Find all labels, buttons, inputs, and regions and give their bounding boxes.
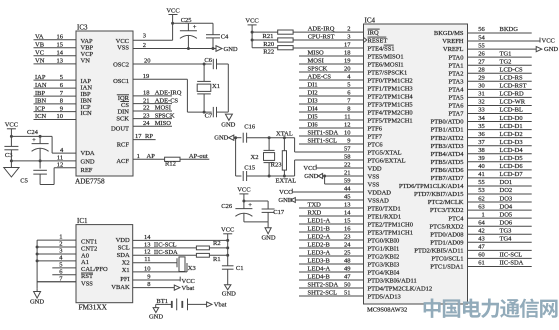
svg-text:OSC1: OSC1 bbox=[113, 78, 129, 85]
svg-text:PTC4: PTC4 bbox=[448, 215, 464, 222]
svg-text:VDD: VDD bbox=[116, 237, 130, 244]
svg-text:ICP: ICP bbox=[35, 105, 46, 112]
svg-text:C17: C17 bbox=[273, 209, 285, 216]
svg-text:LED1-B: LED1-B bbox=[308, 225, 331, 232]
svg-text:LCD-D5: LCD-D5 bbox=[500, 155, 523, 162]
svg-text:LED4-A: LED4-A bbox=[308, 265, 331, 272]
svg-text:3: 3 bbox=[347, 33, 350, 40]
svg-text:9: 9 bbox=[347, 137, 350, 144]
svg-text:19: 19 bbox=[344, 57, 351, 64]
svg-text:CAL/PFO: CAL/PFO bbox=[81, 266, 108, 273]
svg-text:PTD2/KBI5/AD11: PTD2/KBI5/AD11 bbox=[414, 247, 463, 254]
svg-text:63: 63 bbox=[478, 203, 485, 210]
svg-text:GND: GND bbox=[222, 291, 236, 298]
svg-text:X3: X3 bbox=[188, 265, 196, 272]
svg-text:MISO: MISO bbox=[308, 49, 325, 56]
svg-text:X2: X2 bbox=[122, 259, 130, 266]
svg-text:64: 64 bbox=[478, 219, 485, 226]
svg-text:RCF: RCF bbox=[117, 142, 130, 149]
svg-text:PTB4/ATD4: PTB4/ATD4 bbox=[431, 151, 465, 158]
svg-text:REF: REF bbox=[81, 167, 93, 174]
svg-text:60: 60 bbox=[478, 252, 485, 259]
svg-text:DI4: DI4 bbox=[308, 105, 319, 112]
svg-text:R12: R12 bbox=[165, 161, 176, 168]
svg-text:SCL: SCL bbox=[118, 244, 130, 251]
svg-text:13: 13 bbox=[144, 241, 151, 248]
svg-text:20: 20 bbox=[344, 65, 351, 72]
svg-text:PTF2/TPM1CH4: PTF2/TPM1CH4 bbox=[368, 93, 414, 100]
svg-text:58: 58 bbox=[344, 153, 351, 160]
svg-text:LCD-D4: LCD-D4 bbox=[500, 147, 524, 154]
svg-text:VSS: VSS bbox=[117, 45, 129, 52]
svg-text:MOSI: MOSI bbox=[308, 57, 324, 64]
svg-text:SHT1-SDA: SHT1-SDA bbox=[308, 129, 339, 136]
svg-text:ADE-CS: ADE-CS bbox=[308, 73, 332, 80]
svg-text:LCD-D6: LCD-D6 bbox=[500, 163, 524, 170]
svg-text:TG1: TG1 bbox=[500, 50, 512, 57]
svg-text:30: 30 bbox=[478, 83, 485, 90]
svg-text:VREFL: VREFL bbox=[443, 46, 464, 53]
svg-text:VDDAD: VDDAD bbox=[368, 189, 392, 196]
svg-text:PTE1/RXD1: PTE1/RXD1 bbox=[368, 213, 402, 220]
svg-text:DO1: DO1 bbox=[500, 179, 513, 186]
svg-text:MISO: MISO bbox=[155, 120, 172, 127]
svg-text:VSS: VSS bbox=[81, 281, 93, 288]
svg-text:PTE2/TPM1CH0: PTE2/TPM1CH0 bbox=[368, 221, 414, 228]
svg-text:59: 59 bbox=[344, 177, 351, 184]
svg-text:41: 41 bbox=[478, 171, 485, 178]
svg-text:R21: R21 bbox=[263, 33, 274, 40]
svg-text:19: 19 bbox=[143, 73, 150, 80]
svg-text:IIC-SDA: IIC-SDA bbox=[500, 260, 524, 267]
svg-text:+: + bbox=[32, 137, 36, 144]
svg-text:VN: VN bbox=[35, 58, 45, 65]
svg-text:RESET: RESET bbox=[368, 37, 388, 44]
svg-text:22: 22 bbox=[344, 161, 351, 168]
svg-text:PTE4/SS1: PTE4/SS1 bbox=[368, 45, 395, 52]
svg-text:ACF: ACF bbox=[116, 158, 129, 165]
svg-text:LCD-BL: LCD-BL bbox=[500, 107, 524, 114]
svg-text:PTB7/ATD7: PTB7/ATD7 bbox=[431, 175, 465, 182]
svg-text:GND: GND bbox=[304, 173, 318, 180]
svg-text:SHT1-SCL: SHT1-SCL bbox=[308, 137, 338, 144]
svg-text:51: 51 bbox=[344, 289, 351, 296]
svg-text:PTC3/TXD2: PTC3/TXD2 bbox=[430, 207, 464, 214]
svg-text:5: 5 bbox=[347, 81, 350, 88]
svg-text:16: 16 bbox=[57, 33, 64, 40]
svg-text:VCC: VCC bbox=[279, 189, 292, 196]
svg-text:PTD4/TPM2CLK/AD12: PTD4/TPM2CLK/AD12 bbox=[368, 285, 433, 292]
svg-text:LCD-RS: LCD-RS bbox=[500, 75, 524, 82]
svg-text:47: 47 bbox=[344, 273, 351, 280]
svg-text:PTC0/SCL1: PTC0/SCL1 bbox=[431, 256, 463, 263]
svg-text:VCC: VCC bbox=[166, 7, 179, 14]
svg-text:DI6: DI6 bbox=[308, 121, 319, 128]
svg-text:VCC: VCC bbox=[303, 165, 316, 172]
svg-text:C5: C5 bbox=[20, 178, 28, 185]
svg-text:C16: C16 bbox=[244, 124, 256, 131]
svg-text:C6: C6 bbox=[204, 57, 212, 64]
svg-text:ADE-CS: ADE-CS bbox=[155, 97, 179, 104]
svg-text:DO4: DO4 bbox=[500, 203, 513, 210]
svg-text:13: 13 bbox=[57, 58, 64, 65]
svg-text:XTAL: XTAL bbox=[276, 131, 293, 138]
svg-text:GND: GND bbox=[214, 134, 228, 141]
svg-text:18: 18 bbox=[344, 49, 351, 56]
svg-text:8: 8 bbox=[347, 105, 350, 112]
svg-text:47: 47 bbox=[478, 244, 485, 251]
svg-text:GND: GND bbox=[224, 46, 238, 53]
svg-text:+: + bbox=[248, 202, 252, 209]
svg-text:54: 54 bbox=[478, 34, 485, 41]
svg-text:C1: C1 bbox=[236, 265, 244, 272]
svg-text:28: 28 bbox=[478, 66, 485, 73]
svg-text:IAN: IAN bbox=[35, 82, 47, 89]
svg-text:49: 49 bbox=[344, 265, 351, 272]
svg-text:23: 23 bbox=[344, 233, 351, 240]
svg-text:26: 26 bbox=[478, 50, 485, 57]
svg-text:22: 22 bbox=[143, 105, 150, 112]
svg-text:LCD-WR: LCD-WR bbox=[500, 99, 526, 106]
svg-text:FM31XX: FM31XX bbox=[79, 303, 108, 312]
svg-text:32: 32 bbox=[478, 99, 485, 106]
svg-text:VCC: VCC bbox=[245, 18, 258, 25]
svg-text:9: 9 bbox=[60, 105, 63, 112]
svg-text:DI3: DI3 bbox=[308, 97, 318, 104]
svg-text:Vbat: Vbat bbox=[214, 302, 227, 309]
svg-text:23: 23 bbox=[143, 112, 150, 119]
svg-text:IRQ: IRQ bbox=[368, 29, 380, 36]
svg-text:10: 10 bbox=[57, 113, 64, 120]
svg-text:VC: VC bbox=[35, 50, 44, 57]
svg-text:VDA: VDA bbox=[81, 150, 95, 157]
svg-text:SDA: SDA bbox=[117, 252, 130, 259]
svg-text:ADE-IRQ: ADE-IRQ bbox=[308, 25, 335, 32]
svg-text:IIC-SCL: IIC-SCL bbox=[154, 241, 177, 248]
svg-text:55: 55 bbox=[478, 179, 485, 186]
svg-text:VB: VB bbox=[35, 41, 45, 48]
svg-text:48: 48 bbox=[344, 257, 351, 264]
svg-text:TG4: TG4 bbox=[500, 236, 513, 243]
svg-text:2: 2 bbox=[347, 25, 350, 32]
svg-text:62: 62 bbox=[478, 195, 485, 202]
svg-text:PTG0/KBI0: PTG0/KBI0 bbox=[368, 237, 400, 244]
svg-text:GND: GND bbox=[149, 314, 163, 321]
svg-text:DO5: DO5 bbox=[500, 211, 513, 218]
svg-text:3: 3 bbox=[143, 32, 146, 39]
svg-text:PTG5/XTAL: PTG5/XTAL bbox=[368, 149, 402, 156]
svg-text:PTB3/ATD3: PTB3/ATD3 bbox=[431, 143, 464, 150]
svg-text:PTG4/KBI4: PTG4/KBI4 bbox=[368, 269, 401, 276]
svg-text:27: 27 bbox=[478, 58, 485, 65]
svg-text:ADE7758: ADE7758 bbox=[75, 177, 105, 186]
svg-text:SCK: SCK bbox=[116, 116, 129, 123]
svg-text:20: 20 bbox=[144, 57, 151, 64]
svg-text:BKGD/MS: BKGD/MS bbox=[434, 30, 464, 37]
svg-text:PTA6: PTA6 bbox=[448, 103, 464, 110]
svg-text:PTF4/TPM2CH0: PTF4/TPM2CH0 bbox=[368, 109, 413, 116]
svg-text:R2: R2 bbox=[213, 240, 221, 247]
svg-text:R20: R20 bbox=[263, 41, 274, 48]
svg-text:10: 10 bbox=[144, 265, 151, 272]
svg-text:GND: GND bbox=[81, 158, 95, 165]
svg-text:A1: A1 bbox=[81, 259, 89, 266]
svg-text:DO6: DO6 bbox=[500, 219, 513, 226]
svg-text:ADE-IRQ: ADE-IRQ bbox=[155, 90, 182, 97]
svg-text:53: 53 bbox=[478, 187, 485, 194]
svg-text:VA: VA bbox=[35, 33, 44, 40]
svg-text:X1: X1 bbox=[122, 267, 130, 274]
svg-text:GND: GND bbox=[261, 234, 275, 241]
svg-text:VSS: VSS bbox=[368, 173, 380, 180]
svg-text:TG2: TG2 bbox=[500, 58, 512, 65]
svg-text:LCD-D1: LCD-D1 bbox=[500, 123, 523, 130]
svg-text:PTE7/SPSCK1: PTE7/SPSCK1 bbox=[368, 69, 408, 76]
svg-text:PTD7/KBI7/AD15: PTD7/KBI7/AD15 bbox=[414, 191, 463, 198]
svg-text:40: 40 bbox=[478, 163, 485, 170]
svg-text:+: + bbox=[193, 24, 197, 31]
svg-text:DO2: DO2 bbox=[500, 187, 513, 194]
svg-text:C7: C7 bbox=[205, 113, 213, 120]
svg-text:38: 38 bbox=[478, 147, 485, 154]
svg-text:DI1: DI1 bbox=[308, 81, 318, 88]
svg-text:LED2-B: LED2-B bbox=[308, 241, 331, 248]
svg-text:42: 42 bbox=[478, 227, 485, 234]
svg-text:DO3: DO3 bbox=[500, 195, 513, 202]
svg-text:LED1-A: LED1-A bbox=[308, 217, 331, 224]
svg-text:GND: GND bbox=[30, 298, 44, 305]
svg-text:PTE6/MOSI1: PTE6/MOSI1 bbox=[368, 61, 404, 68]
svg-text:24: 24 bbox=[344, 241, 351, 248]
svg-text:9: 9 bbox=[147, 273, 150, 280]
svg-text:12: 12 bbox=[144, 249, 151, 256]
svg-text:PTA3: PTA3 bbox=[448, 78, 463, 85]
svg-text:31: 31 bbox=[478, 91, 485, 98]
svg-text:LCD-D0: LCD-D0 bbox=[500, 115, 523, 122]
svg-text:11: 11 bbox=[144, 256, 150, 263]
svg-text:MC9S08AW32: MC9S08AW32 bbox=[367, 307, 407, 314]
svg-text:PTF3/TPM1CH5: PTF3/TPM1CH5 bbox=[368, 101, 413, 108]
svg-text:DOUT: DOUT bbox=[111, 126, 129, 133]
svg-text:8: 8 bbox=[60, 98, 63, 105]
svg-text:PTC1/SDA1: PTC1/SDA1 bbox=[430, 264, 463, 271]
svg-text:SPSCK: SPSCK bbox=[308, 65, 328, 72]
svg-text:LED3-B: LED3-B bbox=[308, 257, 331, 264]
svg-text:PTG2/KBI2: PTG2/KBI2 bbox=[368, 253, 400, 260]
svg-text:50: 50 bbox=[344, 281, 351, 288]
svg-text:PTB2/ATD2: PTB2/ATD2 bbox=[431, 135, 464, 142]
svg-text:DI2: DI2 bbox=[308, 89, 318, 96]
svg-text:BKDG: BKDG bbox=[500, 26, 519, 33]
svg-text:PTB0/ATD0: PTB0/ATD0 bbox=[431, 119, 464, 126]
svg-text:C24: C24 bbox=[27, 129, 39, 136]
svg-text:VN: VN bbox=[81, 57, 91, 64]
svg-text:PTA1: PTA1 bbox=[448, 62, 463, 69]
svg-text:15: 15 bbox=[344, 217, 351, 224]
svg-text:PTF6: PTF6 bbox=[368, 125, 383, 132]
svg-text:29: 29 bbox=[478, 75, 485, 82]
svg-text:AP-out: AP-out bbox=[189, 153, 208, 160]
svg-text:PTF0/TPM1CH2: PTF0/TPM1CH2 bbox=[368, 77, 413, 84]
svg-text:ICN: ICN bbox=[81, 110, 93, 117]
svg-text:IC3: IC3 bbox=[77, 24, 88, 32]
svg-text:VCC: VCC bbox=[221, 227, 234, 234]
svg-text:PTC5/RXD2: PTC5/RXD2 bbox=[430, 223, 464, 230]
svg-text:61: 61 bbox=[478, 260, 485, 267]
svg-text:C4: C4 bbox=[221, 34, 229, 41]
svg-text:PTG6/EXTAL: PTG6/EXTAL bbox=[368, 157, 406, 164]
svg-text:X1: X1 bbox=[212, 83, 220, 90]
svg-text:X2: X2 bbox=[251, 154, 259, 161]
svg-text:12: 12 bbox=[344, 121, 351, 128]
svg-text:R1: R1 bbox=[213, 256, 221, 263]
svg-text:VCC: VCC bbox=[542, 38, 555, 45]
svg-text:CPU-RST: CPU-RST bbox=[308, 33, 335, 40]
svg-text:IAP: IAP bbox=[35, 74, 46, 81]
svg-text:R22: R22 bbox=[263, 48, 274, 55]
svg-text:VSSAD: VSSAD bbox=[368, 197, 390, 204]
svg-text:21: 21 bbox=[143, 97, 150, 104]
svg-text:PTE3/TPM1CH1: PTE3/TPM1CH1 bbox=[368, 229, 414, 236]
svg-text:5: 5 bbox=[60, 74, 63, 81]
svg-text:VCC: VCC bbox=[5, 122, 18, 129]
svg-text:IC4: IC4 bbox=[365, 17, 376, 25]
svg-text:ICN: ICN bbox=[35, 113, 47, 120]
svg-text:17: 17 bbox=[344, 41, 351, 48]
svg-text:34: 34 bbox=[478, 115, 485, 122]
svg-text:PFI: PFI bbox=[120, 276, 129, 283]
svg-text:DI5: DI5 bbox=[308, 113, 318, 120]
svg-text:DIN: DIN bbox=[117, 109, 129, 116]
svg-text:PTF7: PTF7 bbox=[368, 133, 383, 140]
svg-text:OSC2: OSC2 bbox=[113, 62, 129, 69]
svg-text:IIC-SDA: IIC-SDA bbox=[154, 249, 178, 256]
svg-text:PTD6/TPM1CLK/AD14: PTD6/TPM1CLK/AD14 bbox=[399, 183, 464, 190]
svg-text:PTF1/TPM1CH3: PTF1/TPM1CH3 bbox=[368, 85, 413, 92]
svg-text:PTA4: PTA4 bbox=[448, 86, 464, 93]
svg-text:LED2-A: LED2-A bbox=[308, 233, 331, 240]
svg-text:24: 24 bbox=[143, 120, 150, 127]
svg-text:Vbat: Vbat bbox=[182, 285, 195, 292]
svg-text:LCD-RD: LCD-RD bbox=[500, 91, 525, 98]
svg-text:PTA0: PTA0 bbox=[448, 54, 463, 61]
svg-text:IIC-SCL: IIC-SCL bbox=[500, 252, 523, 259]
svg-text:LCD-RST: LCD-RST bbox=[500, 83, 527, 90]
svg-text:PTC6: PTC6 bbox=[368, 141, 384, 148]
svg-text:57: 57 bbox=[344, 145, 351, 152]
svg-text:VCC: VCC bbox=[237, 187, 250, 194]
svg-text:PTB6/ATD6: PTB6/ATD6 bbox=[431, 167, 465, 174]
svg-text:44: 44 bbox=[344, 185, 351, 192]
svg-text:PTB1/ATD1: PTB1/ATD1 bbox=[431, 127, 464, 134]
svg-text:SHT2-SDA: SHT2-SDA bbox=[308, 281, 339, 288]
svg-text:SHT2-SCL: SHT2-SCL bbox=[308, 289, 338, 296]
svg-text:35: 35 bbox=[478, 123, 485, 130]
svg-text:VDD: VDD bbox=[368, 165, 382, 172]
svg-text:GND: GND bbox=[544, 46, 558, 53]
svg-text:C25: C25 bbox=[181, 17, 192, 24]
svg-text:43: 43 bbox=[478, 236, 485, 243]
svg-text:14: 14 bbox=[57, 50, 64, 57]
svg-text:14: 14 bbox=[144, 234, 151, 241]
svg-text:LCD-D3: LCD-D3 bbox=[500, 139, 523, 146]
svg-text:PTD1/AD09: PTD1/AD09 bbox=[430, 239, 463, 246]
svg-text:TG3: TG3 bbox=[500, 227, 512, 234]
svg-text:PTD3/KBI6/AD11: PTD3/KBI6/AD11 bbox=[368, 277, 417, 284]
svg-text:PTD0/AD08: PTD0/AD08 bbox=[430, 231, 463, 238]
svg-text:11: 11 bbox=[344, 113, 350, 120]
svg-text:VREFH: VREFH bbox=[442, 38, 464, 45]
svg-text:PTC2/MCLK: PTC2/MCLK bbox=[428, 199, 464, 206]
svg-text:R23: R23 bbox=[271, 161, 282, 168]
svg-text:16: 16 bbox=[344, 225, 351, 232]
svg-text:SPSCK: SPSCK bbox=[155, 112, 175, 119]
svg-text:18: 18 bbox=[143, 90, 150, 97]
svg-text:TXD: TXD bbox=[308, 201, 322, 208]
svg-text:33: 33 bbox=[478, 107, 485, 114]
svg-text:LED4-B: LED4-B bbox=[308, 273, 331, 280]
svg-text:13: 13 bbox=[344, 201, 351, 208]
svg-text:45: 45 bbox=[344, 193, 351, 200]
svg-text:8: 8 bbox=[147, 281, 150, 288]
svg-text:C26: C26 bbox=[221, 203, 233, 210]
svg-text:LCD-D7: LCD-D7 bbox=[500, 171, 524, 178]
svg-text:PTG3/KBI3: PTG3/KBI3 bbox=[368, 261, 400, 268]
svg-text:2: 2 bbox=[143, 42, 146, 49]
svg-text:PTG1/KBI1: PTG1/KBI1 bbox=[368, 245, 400, 252]
svg-text:PTA2: PTA2 bbox=[448, 70, 463, 77]
svg-text:IBN: IBN bbox=[35, 98, 47, 105]
svg-text:PTE0/TXD1: PTE0/TXD1 bbox=[368, 205, 401, 212]
svg-text:LED3-A: LED3-A bbox=[308, 249, 331, 256]
svg-text:PTD5/AD13: PTD5/AD13 bbox=[368, 293, 401, 300]
svg-text:LCD-CS: LCD-CS bbox=[500, 66, 524, 73]
svg-text:14: 14 bbox=[344, 209, 351, 216]
svg-text:PTA7: PTA7 bbox=[448, 111, 464, 118]
svg-text:VCC: VCC bbox=[182, 278, 195, 285]
svg-text:55: 55 bbox=[478, 42, 485, 49]
svg-text:PTF5/TPM2CH1: PTF5/TPM2CH1 bbox=[368, 117, 413, 124]
svg-text:37: 37 bbox=[478, 139, 485, 146]
svg-text:EXTAL: EXTAL bbox=[276, 177, 297, 184]
svg-text:VSS: VSS bbox=[368, 181, 380, 188]
svg-text:PTE5/MISO1: PTE5/MISO1 bbox=[368, 53, 404, 60]
svg-text:LCD-D2: LCD-D2 bbox=[500, 131, 523, 138]
svg-text:C15: C15 bbox=[244, 164, 255, 171]
svg-text:36: 36 bbox=[478, 131, 485, 138]
svg-text:39: 39 bbox=[478, 155, 485, 162]
svg-text:MOSI: MOSI bbox=[155, 105, 171, 112]
svg-text:VBAK: VBAK bbox=[111, 284, 130, 291]
svg-text:RST: RST bbox=[81, 273, 93, 280]
svg-text:25: 25 bbox=[344, 249, 351, 256]
svg-text:RXD: RXD bbox=[308, 209, 322, 216]
svg-text:PTB5/ATD5: PTB5/ATD5 bbox=[431, 159, 464, 166]
svg-text:IBP: IBP bbox=[35, 90, 46, 97]
svg-text:1: 1 bbox=[482, 211, 485, 218]
svg-text:56: 56 bbox=[478, 26, 485, 33]
svg-text:15: 15 bbox=[57, 41, 64, 48]
svg-text:PTA5: PTA5 bbox=[448, 95, 463, 102]
svg-text:IC1: IC1 bbox=[77, 217, 88, 225]
svg-text:21: 21 bbox=[344, 169, 351, 176]
svg-text:GND: GND bbox=[221, 122, 235, 129]
svg-text:10: 10 bbox=[344, 129, 351, 136]
